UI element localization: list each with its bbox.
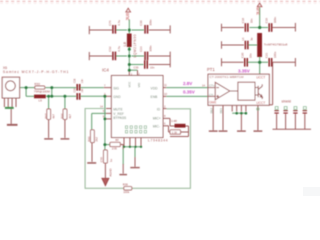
svg-text:10n: 10n bbox=[81, 88, 84, 93]
svg-text:14: 14 bbox=[202, 83, 205, 87]
svg-text:3U8: 3U8 bbox=[256, 7, 261, 15]
svg-text:4.7u: 4.7u bbox=[117, 46, 121, 52]
svg-text:6: 6 bbox=[164, 121, 166, 125]
svg-text:VDD: VDD bbox=[151, 86, 159, 90]
svg-text:C30: C30 bbox=[139, 20, 143, 26]
svg-text:L7948344: L7948344 bbox=[148, 138, 168, 142]
svg-text:0.35V: 0.35V bbox=[183, 89, 195, 94]
svg-text:CT-2000TK1-MBRT1M: CT-2000TK1-MBRT1M bbox=[210, 75, 244, 79]
svg-text:C76: C76 bbox=[108, 20, 112, 26]
svg-text:VIO: VIO bbox=[137, 82, 141, 88]
svg-text:C33: C33 bbox=[134, 66, 139, 70]
svg-text:R67: R67 bbox=[44, 113, 48, 119]
svg-text:ENB: ENB bbox=[151, 95, 159, 99]
svg-text:10n: 10n bbox=[249, 18, 253, 23]
svg-text:MIC-: MIC- bbox=[153, 124, 160, 128]
svg-text:DE2: DE2 bbox=[209, 108, 213, 114]
svg-text:LQM21FN00: LQM21FN00 bbox=[133, 34, 137, 57]
svg-text:UCCT: UCCT bbox=[256, 76, 265, 80]
svg-text:3.4R: 3.4R bbox=[171, 119, 177, 123]
svg-text:C55: C55 bbox=[99, 157, 103, 163]
svg-text:10n: 10n bbox=[150, 66, 155, 70]
svg-text:4.7u: 4.7u bbox=[117, 20, 121, 26]
svg-text:C20: C20 bbox=[240, 52, 244, 58]
svg-text:11: 11 bbox=[164, 83, 167, 87]
svg-text:BYPASS: BYPASS bbox=[113, 116, 127, 120]
svg-text:shield: shield bbox=[282, 99, 291, 103]
svg-text:L9: L9 bbox=[39, 99, 43, 103]
svg-text:3U8: 3U8 bbox=[125, 12, 130, 20]
svg-text:2k2: 2k2 bbox=[95, 137, 99, 142]
svg-text:R66: R66 bbox=[60, 113, 64, 119]
svg-text:75R@100M: 75R@100M bbox=[34, 90, 51, 94]
svg-text:2.8V: 2.8V bbox=[183, 81, 192, 86]
svg-text:C29: C29 bbox=[74, 88, 77, 93]
svg-text:C19: C19 bbox=[265, 18, 269, 24]
svg-text:2: 2 bbox=[164, 104, 166, 108]
svg-text:C32: C32 bbox=[108, 46, 112, 52]
svg-text:BF: BF bbox=[116, 138, 120, 142]
svg-text:GME: GME bbox=[209, 101, 217, 105]
svg-text:IC4: IC4 bbox=[102, 68, 109, 73]
svg-text:R30: R30 bbox=[34, 82, 40, 86]
svg-text:3.35V: 3.35V bbox=[238, 68, 250, 73]
svg-text:100n: 100n bbox=[148, 19, 152, 26]
svg-text:Samtec MCX7-J-P-H-GT-TH1: Samtec MCX7-J-P-H-GT-TH1 bbox=[3, 70, 69, 74]
svg-text:R60: R60 bbox=[87, 136, 91, 142]
svg-text:100n: 100n bbox=[273, 51, 277, 58]
svg-text:14: 14 bbox=[100, 104, 103, 108]
svg-text:UCCT: UCCT bbox=[256, 101, 265, 105]
svg-text:100k: 100k bbox=[123, 190, 130, 194]
svg-text:PT1: PT1 bbox=[207, 67, 215, 72]
svg-text:GND: GND bbox=[113, 95, 121, 99]
svg-text:CT-: CT- bbox=[209, 93, 214, 97]
svg-text:C23: C23 bbox=[139, 46, 143, 52]
svg-text:7mM74G79D1u8: 7mM74G79D1u8 bbox=[264, 42, 288, 46]
svg-text:100n: 100n bbox=[273, 16, 277, 23]
svg-text:VCC: VCC bbox=[128, 82, 132, 88]
svg-text:L6: L6 bbox=[241, 37, 245, 41]
svg-text:AGND: AGND bbox=[109, 169, 113, 177]
svg-text:L8: L8 bbox=[122, 41, 127, 46]
svg-text:2/35: 2/35 bbox=[112, 147, 118, 151]
svg-text:10: 10 bbox=[164, 92, 167, 96]
svg-text:C28: C28 bbox=[74, 78, 77, 83]
svg-text:MIC+: MIC+ bbox=[153, 117, 161, 121]
svg-text:4k7: 4k7 bbox=[68, 114, 72, 119]
svg-text:CT+: CT+ bbox=[209, 84, 215, 88]
svg-text:100n: 100n bbox=[148, 45, 152, 52]
svg-text:8: 8 bbox=[164, 114, 166, 118]
svg-text:7: 7 bbox=[104, 83, 106, 87]
svg-text:10n: 10n bbox=[249, 53, 253, 58]
svg-text:10n: 10n bbox=[81, 79, 84, 84]
svg-text:C18: C18 bbox=[241, 18, 245, 24]
svg-text:1u: 1u bbox=[249, 37, 253, 41]
svg-text:1u: 1u bbox=[109, 159, 113, 163]
svg-text:DE1: DE1 bbox=[219, 108, 223, 114]
svg-text:C21: C21 bbox=[265, 52, 269, 58]
svg-text:1.39: 1.39 bbox=[172, 131, 178, 135]
svg-text:4k7: 4k7 bbox=[52, 114, 56, 119]
svg-text:SIG: SIG bbox=[113, 86, 119, 90]
svg-text:R36: R36 bbox=[123, 182, 129, 186]
